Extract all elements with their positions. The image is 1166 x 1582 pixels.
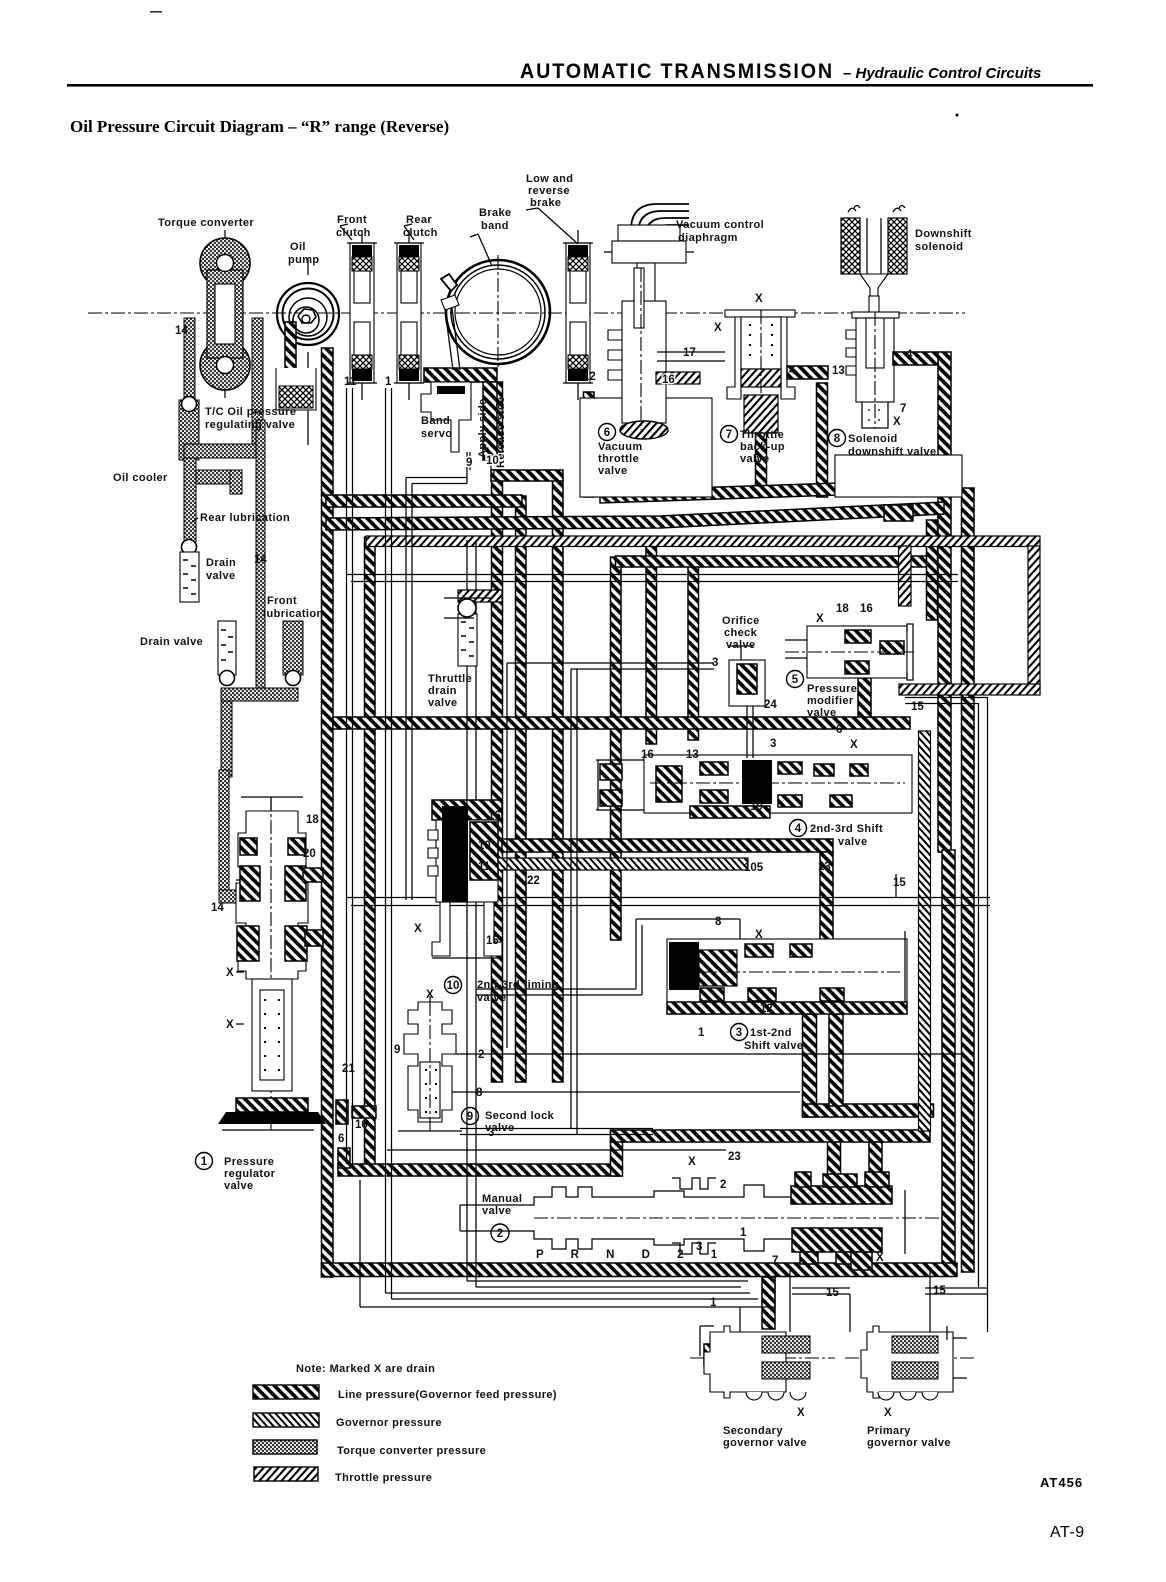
- wire: throttle bus HT1: [366, 536, 1040, 547]
- wire: thin double bus HH: [346, 898, 990, 906]
- svg-text:2: 2: [720, 1179, 726, 1191]
- svg-text:X: X: [426, 989, 434, 1001]
- svg-text:Shift valve: Shift valve: [744, 1040, 803, 1052]
- svg-text:Manual: Manual: [482, 1193, 522, 1205]
- label 7 throttle back-up valve: [721, 426, 738, 443]
- torque converter left pipe 14: [184, 318, 195, 400]
- wire: box under solenoid valve: [835, 455, 962, 497]
- svg-text:15: 15: [826, 1287, 839, 1299]
- svg-text:valve: valve: [428, 697, 458, 709]
- svg-text:pump: pump: [288, 254, 320, 266]
- band servo stem: [445, 308, 460, 370]
- svg-text:AT-9: AT-9: [1050, 1524, 1085, 1541]
- back-up valve side bus: [787, 366, 828, 379]
- svg-text:throttle: throttle: [598, 453, 639, 465]
- oil cooler S pipe: [252, 412, 263, 448]
- wire: long bus HE: [333, 717, 910, 729]
- svg-text:9: 9: [466, 457, 472, 469]
- wire: throttle right drop: [1028, 546, 1040, 694]
- oil pump pickup pipe: [285, 322, 296, 384]
- wire: stub below bus B: [884, 505, 913, 521]
- wire: port 8 line valve3: [476, 919, 740, 995]
- svg-text:3: 3: [696, 1241, 702, 1253]
- manual valve U2: [460, 1172, 940, 1270]
- svg-text:Downshift: Downshift: [915, 228, 972, 240]
- svg-text:10: 10: [486, 455, 499, 467]
- wire: thin line T1: [347, 388, 353, 1164]
- svg-text:18: 18: [306, 814, 319, 826]
- wire: governor feed to secondary: [762, 1277, 775, 1329]
- svg-text:6: 6: [338, 1133, 344, 1145]
- svg-text:X: X: [893, 416, 901, 428]
- svg-text:diaphragm: diaphragm: [678, 232, 738, 244]
- throttle back-up valve: [657, 310, 795, 433]
- svg-text:13: 13: [832, 365, 845, 377]
- svg-text:10: 10: [447, 980, 460, 992]
- svg-text:2nd-3rd Shift: 2nd-3rd Shift: [810, 823, 883, 835]
- svg-text:14: 14: [211, 902, 224, 914]
- svg-text:15: 15: [933, 1285, 946, 1297]
- svg-text:reverse: reverse: [528, 185, 570, 197]
- legend swatch torque converter pressure: [253, 1440, 317, 1454]
- svg-text:AUTOMATIC TRANSMISSION: AUTOMATIC TRANSMISSION: [520, 60, 834, 83]
- wire: manual valve drop 1: [828, 1142, 841, 1187]
- svg-text:1: 1: [201, 1156, 208, 1168]
- svg-text:Second lock: Second lock: [485, 1110, 555, 1122]
- wire: elbow 10 horizontal: [491, 470, 563, 481]
- wire: governor feed lines: [740, 1270, 988, 1332]
- oil pump: [277, 258, 339, 445]
- svg-text:Low and: Low and: [526, 173, 573, 185]
- svg-text:X: X: [876, 1252, 884, 1264]
- legend swatch throttle pressure: [254, 1467, 318, 1481]
- svg-text:13: 13: [818, 861, 831, 873]
- svg-text:7: 7: [772, 1255, 778, 1267]
- svg-text:6: 6: [836, 724, 842, 736]
- svg-text:band: band: [481, 220, 509, 232]
- legend swatch line pressure: [253, 1385, 319, 1399]
- primary governor valve: [845, 1326, 975, 1400]
- svg-text:3: 3: [770, 738, 776, 750]
- svg-text:Solenoid: Solenoid: [848, 433, 898, 445]
- svg-text:8: 8: [476, 1087, 483, 1099]
- svg-text:22: 22: [527, 875, 540, 887]
- torque converter: [200, 230, 250, 398]
- torque converter right pipe: [252, 318, 263, 412]
- svg-text:20: 20: [303, 848, 316, 860]
- wire: solenoid valve drop: [817, 383, 828, 497]
- wire: thin double bus HD: [346, 575, 958, 582]
- svg-text:Drain valve: Drain valve: [140, 636, 203, 648]
- wire: box under vacuum throttle valve: [580, 398, 712, 497]
- svg-text:1: 1: [710, 1297, 717, 1309]
- svg-text:15: 15: [893, 877, 906, 889]
- wire: bus B: [326, 502, 944, 530]
- front clutch: [347, 243, 377, 383]
- svg-text:18: 18: [836, 603, 849, 615]
- vacuum control diaphragm: [604, 204, 694, 301]
- svg-text:Front: Front: [267, 595, 297, 607]
- drain valve 2: [218, 621, 236, 686]
- svg-text:valve: valve: [224, 1180, 254, 1192]
- wire: thin line T6: [905, 697, 988, 1288]
- wire: drop from bus B to modifier: [927, 520, 938, 620]
- wire: bus 22: [502, 839, 833, 852]
- label 4 2nd-3rd shift valve: [790, 820, 807, 837]
- svg-text:16: 16: [641, 749, 654, 761]
- svg-text:6: 6: [604, 427, 610, 439]
- svg-text:valve: valve: [477, 992, 507, 1004]
- svg-text:Line pressure(Governor feed pr: Line pressure(Governor feed pressure): [338, 1389, 557, 1401]
- low and reverse brake: [563, 243, 593, 383]
- wire: spine V9 orifice feed: [688, 561, 699, 740]
- wire: throttle bottom connector: [899, 684, 1040, 695]
- solenoid valve side bus: [893, 352, 938, 365]
- svg-text:back-up: back-up: [740, 441, 785, 453]
- wire: port 2 line second lock: [453, 1053, 963, 1055]
- svg-text:2nd-3rd timing: 2nd-3rd timing: [477, 979, 559, 991]
- svg-text:Oil cooler: Oil cooler: [113, 472, 168, 484]
- svg-text:11: 11: [344, 376, 357, 388]
- svg-text:3: 3: [712, 657, 718, 669]
- svg-text:3: 3: [736, 1027, 742, 1039]
- wire: HJ left riser: [338, 1148, 350, 1168]
- svg-text:2: 2: [478, 1049, 484, 1061]
- svg-text:governor valve: governor valve: [867, 1437, 951, 1449]
- svg-text:X: X: [816, 613, 824, 625]
- svg-text:Apply side: Apply side: [477, 398, 489, 458]
- 2nd-3rd shift valve U4: [596, 755, 912, 818]
- svg-text:X: X: [755, 929, 763, 941]
- wire: spine V7: [611, 557, 622, 940]
- svg-text:Oil Pressure Circuit Diagram –: Oil Pressure Circuit Diagram – “R” range…: [70, 117, 449, 136]
- svg-text:10: 10: [478, 840, 491, 852]
- stub 16 at vacuum throttle valve: [656, 372, 700, 384]
- svg-text:17: 17: [683, 347, 696, 359]
- svg-text:Drain: Drain: [206, 557, 236, 569]
- orifice check valve: [729, 646, 765, 758]
- wire: thin bus above manual: [460, 1129, 653, 1135]
- svg-text:1: 1: [698, 1027, 705, 1039]
- secondary governor valve: [690, 1326, 835, 1400]
- svg-text:X: X: [884, 1407, 892, 1419]
- rear clutch: [394, 243, 424, 383]
- svg-text:24: 24: [764, 699, 777, 711]
- wire: back-up valve drop: [756, 430, 767, 497]
- label 9 second lock valve: [462, 1108, 479, 1125]
- svg-text:7: 7: [726, 429, 732, 441]
- wire: second spine V2: [365, 537, 376, 1166]
- svg-text:downshift valve: downshift valve: [848, 446, 937, 458]
- wire: thin line T4: [467, 540, 748, 1287]
- svg-text:Governor pressure: Governor pressure: [336, 1417, 442, 1429]
- svg-text:Orifice: Orifice: [722, 615, 760, 627]
- wire: bus HJ left: [338, 1164, 622, 1176]
- svg-text:21: 21: [342, 1063, 355, 1075]
- wire: right spine VR2: [962, 488, 975, 1272]
- legend swatch governor pressure: [253, 1413, 319, 1427]
- svg-text:2: 2: [497, 1228, 503, 1240]
- svg-text:16: 16: [860, 603, 873, 615]
- svg-text:3: 3: [488, 1127, 494, 1139]
- svg-text:Note: Marked X are drain: Note: Marked X are drain: [296, 1363, 435, 1375]
- svg-text:Thruttle: Thruttle: [428, 673, 472, 685]
- svg-text:valve: valve: [740, 453, 770, 465]
- svg-text:12: 12: [760, 1003, 773, 1015]
- svg-text:8: 8: [834, 433, 841, 445]
- svg-text:X: X: [414, 923, 422, 935]
- wire: spine V6 from elbow 10: [553, 478, 564, 1082]
- wire: hatch cluster 21-16: [336, 1100, 348, 1124]
- middle lube pipe 14: [256, 420, 265, 690]
- svg-text:8: 8: [715, 916, 722, 928]
- svg-text:X: X: [688, 1156, 696, 1168]
- svg-text:Brake: Brake: [479, 207, 512, 219]
- wire: nested loop bottom 3: [360, 1180, 775, 1307]
- svg-text:12: 12: [583, 371, 596, 383]
- svg-text:15: 15: [486, 935, 499, 947]
- solenoid downshift valve: [846, 312, 899, 428]
- svg-text:check: check: [724, 627, 758, 639]
- svg-text:lubrication: lubrication: [263, 608, 324, 620]
- svg-text:Torque converter: Torque converter: [158, 217, 254, 229]
- svg-text:AT456: AT456: [1040, 1475, 1083, 1490]
- svg-text:Throttle: Throttle: [740, 429, 784, 441]
- svg-text:1st-2nd: 1st-2nd: [750, 1027, 792, 1039]
- svg-text:Pressure: Pressure: [224, 1156, 274, 1168]
- 2nd-3rd timing valve U10: [428, 800, 502, 958]
- svg-text:drain: drain: [428, 685, 457, 697]
- wire: release-side spine V4 lower: [492, 470, 503, 1082]
- svg-text:Oil: Oil: [290, 241, 306, 253]
- lube bottom connector: [221, 688, 298, 701]
- wire: manual valve drop 2: [869, 1142, 882, 1182]
- wire: release-side spine V4 top: [492, 382, 503, 452]
- svg-text:X: X: [755, 293, 763, 305]
- wire: thin line 3 feed: [507, 663, 714, 1134]
- svg-text:Primary: Primary: [867, 1425, 911, 1437]
- svg-text:9: 9: [394, 1044, 400, 1056]
- svg-text:23: 23: [728, 1151, 741, 1163]
- svg-text:105: 105: [744, 862, 764, 874]
- throttle drain valve symbol: [458, 590, 502, 602]
- wire: low-reverse line 12: [584, 392, 595, 497]
- pressure regulator valve U1: [218, 797, 326, 1130]
- clutch centerline ticks: [362, 230, 578, 400]
- svg-text:T/C Oil pressure: T/C Oil pressure: [205, 406, 296, 418]
- svg-text:valve: valve: [807, 707, 837, 719]
- VALVES: [218, 624, 975, 1400]
- svg-text:valve: valve: [482, 1205, 512, 1217]
- svg-text:clutch: clutch: [336, 227, 371, 239]
- label 6 vacuum throttle valve: [599, 424, 616, 441]
- wire: bus C: [616, 556, 933, 567]
- wire: elbow connect: [803, 1104, 934, 1117]
- svg-text:14: 14: [254, 554, 267, 566]
- svg-text:valve: valve: [206, 570, 236, 582]
- label 1 pressure regulator valve: [196, 1153, 213, 1170]
- wire: line to port 23: [387, 1149, 726, 1151]
- svg-text:modifier: modifier: [807, 695, 854, 707]
- svg-text:Band: Band: [421, 415, 450, 427]
- wire: bus A: [326, 495, 522, 507]
- wire: bus HJ right: [611, 1130, 931, 1142]
- second lock valve U9: [398, 996, 462, 1131]
- svg-text:valve: valve: [726, 639, 756, 651]
- oil pump sump: [276, 368, 316, 410]
- svg-text:Pressure: Pressure: [807, 683, 857, 695]
- svg-text:5: 5: [792, 674, 799, 686]
- wire: right spine VR1: [938, 352, 951, 852]
- svg-text:X: X: [226, 1019, 234, 1031]
- svg-text:Front: Front: [337, 214, 367, 226]
- wire: drop 13 to shift valve: [820, 852, 833, 948]
- svg-text:4: 4: [795, 823, 802, 835]
- wire: throttle branch to modifier: [899, 546, 912, 606]
- svg-text:11: 11: [478, 861, 491, 873]
- downshift solenoid: [841, 206, 907, 315]
- wire: thin line T2: [386, 388, 759, 1299]
- svg-text:clutch: clutch: [403, 227, 438, 239]
- 1st-2nd shift valve U3: [667, 874, 907, 1014]
- svg-text:valve: valve: [838, 836, 868, 848]
- drain valve left: [180, 540, 199, 603]
- svg-text:1: 1: [385, 376, 392, 388]
- front lubrication valve: [283, 621, 303, 686]
- wire: governor bus 105b: [496, 858, 748, 870]
- MAZE: [322, 348, 1041, 1332]
- svg-text:valve: valve: [598, 465, 628, 477]
- wire: left spine V1 line pressure: [322, 348, 334, 1277]
- svg-text:solenoid: solenoid: [915, 241, 963, 253]
- wire: modifier port 6 stub: [858, 678, 871, 723]
- wire: elbow below shift valve a: [803, 1014, 817, 1117]
- svg-text:– Hydraulic Control Circuits: – Hydraulic Control Circuits: [843, 65, 1041, 82]
- svg-text:4: 4: [789, 365, 796, 377]
- label 5 pressure modifier valve: [787, 671, 804, 688]
- page header: [67, 11, 1093, 117]
- wire: bus HJ riser: [611, 1131, 623, 1176]
- T/C oil pressure regulating valve: [179, 397, 199, 461]
- label 8 solenoid downshift valve: [829, 430, 846, 447]
- band servo: [421, 368, 497, 477]
- brake band: [441, 255, 550, 370]
- svg-text:X: X: [714, 322, 722, 334]
- svg-text:regulator: regulator: [224, 1168, 276, 1180]
- svg-text:7: 7: [900, 403, 906, 415]
- label 3 1st-2nd shift valve: [731, 1024, 748, 1041]
- svg-text:regulating valve: regulating valve: [205, 419, 295, 431]
- shaft centerline: [88, 312, 965, 314]
- wire: governor vertical fine: [919, 731, 931, 1131]
- svg-text:16: 16: [662, 374, 675, 386]
- svg-text:X: X: [226, 967, 234, 979]
- wire: elbow mid vertical: [829, 1014, 843, 1106]
- svg-text:16: 16: [355, 1119, 368, 1131]
- svg-text:9: 9: [467, 1111, 473, 1123]
- pressure modifier valve U5: [785, 624, 915, 680]
- svg-text:4: 4: [906, 349, 913, 361]
- wire: port 8 line second lock: [448, 1091, 800, 1093]
- svg-text:servo: servo: [421, 428, 452, 440]
- svg-text:15: 15: [911, 701, 924, 713]
- svg-text:Vacuum control: Vacuum control: [676, 219, 764, 231]
- wire: spine V8 throttle: [646, 537, 657, 744]
- svg-text:governor valve: governor valve: [723, 1437, 807, 1449]
- svg-text:Rear lubrication: Rear lubrication: [200, 512, 290, 524]
- vacuum throttle valve: [608, 268, 668, 439]
- label 10 2nd-3rd timing valve: [445, 977, 462, 994]
- svg-text:X: X: [850, 739, 858, 751]
- svg-text:16: 16: [488, 810, 501, 822]
- svg-text:Throttle pressure: Throttle pressure: [335, 1472, 432, 1484]
- svg-text:13: 13: [686, 749, 699, 761]
- svg-text:brake: brake: [530, 197, 561, 209]
- svg-text:X: X: [797, 1407, 805, 1419]
- svg-text:14: 14: [175, 325, 188, 337]
- legend: [253, 1363, 557, 1484]
- oil cooler return to regulator: [219, 770, 229, 895]
- svg-text:19: 19: [750, 801, 763, 813]
- svg-text:Secondary: Secondary: [723, 1425, 783, 1437]
- wire: bottom bus: [322, 1263, 958, 1277]
- wire: thin line T3: [406, 452, 467, 900]
- svg-text:Vacuum: Vacuum: [598, 441, 643, 453]
- svg-text:Torque converter pressure: Torque converter pressure: [337, 1445, 486, 1457]
- svg-text:1: 1: [740, 1227, 747, 1239]
- wire: spine V5: [516, 496, 527, 1082]
